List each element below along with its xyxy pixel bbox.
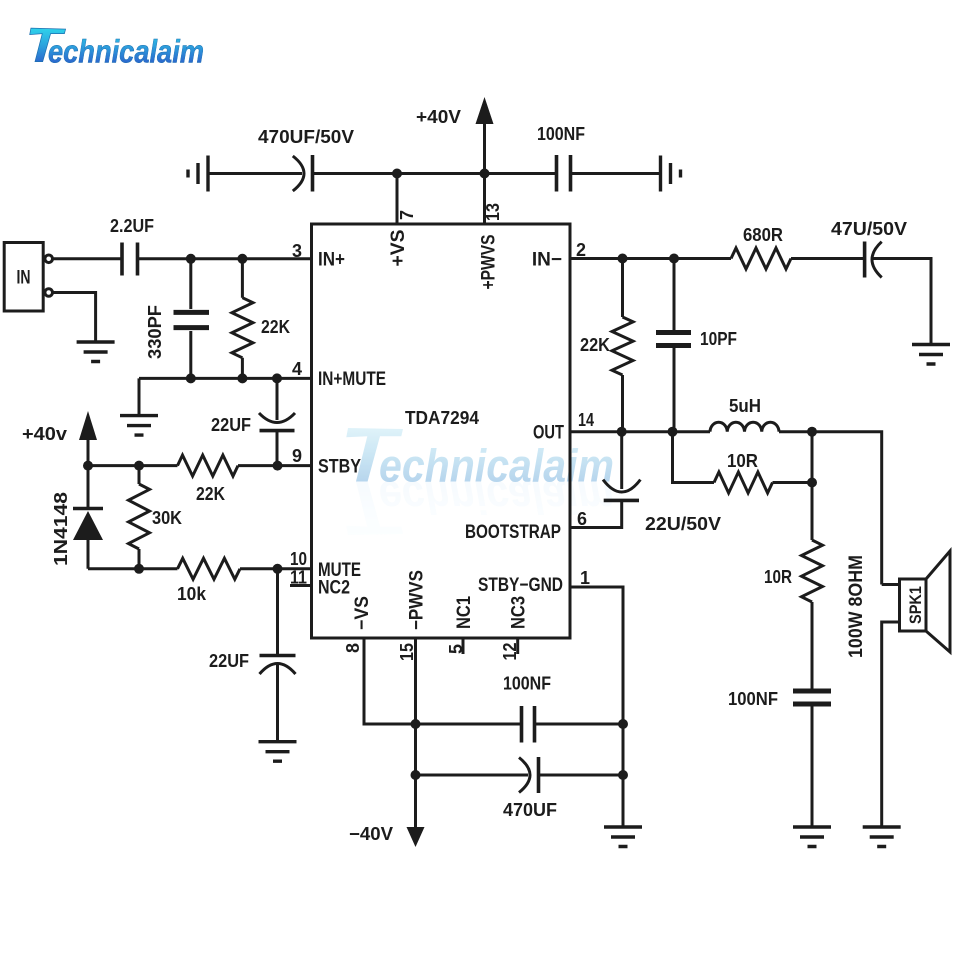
watermark Technicalaim (center) bbox=[346, 428, 614, 535]
svg-text:NC3: NC3 bbox=[509, 596, 530, 629]
logo Technicalaim (top-left) bbox=[30, 28, 204, 69]
svg-text:47U/50V: 47U/50V bbox=[831, 219, 907, 239]
svg-text:22UF: 22UF bbox=[209, 651, 249, 671]
node bbox=[618, 254, 628, 264]
wire pin 8 -VS down bbox=[364, 638, 520, 724]
ground (22UF mute) bbox=[259, 742, 297, 762]
pin 5 NC1 bbox=[446, 596, 475, 654]
svg-text:IN+MUTE: IN+MUTE bbox=[318, 369, 386, 390]
wire 470UF line bbox=[416, 774, 529, 777]
node bbox=[273, 461, 283, 471]
svg-text:10k: 10k bbox=[177, 584, 207, 604]
svg-text:echnicalaim: echnicalaim bbox=[379, 440, 614, 492]
svg-text:10PF: 10PF bbox=[700, 329, 737, 349]
node bbox=[273, 564, 283, 574]
svg-text:10R: 10R bbox=[727, 451, 758, 471]
svg-text:IN+: IN+ bbox=[318, 250, 345, 271]
svg-text:echnicalaim: echnicalaim bbox=[48, 34, 204, 70]
svg-text:TDA7294: TDA7294 bbox=[405, 408, 479, 428]
ground (47U) bbox=[912, 345, 950, 365]
capacitor C 2.2UF bbox=[110, 216, 154, 276]
wire MUTE line bbox=[88, 567, 312, 570]
wire top rail right segment bbox=[571, 172, 661, 175]
svg-text:NC1: NC1 bbox=[454, 596, 475, 629]
capacitor 10PF bbox=[656, 259, 737, 432]
svg-text:30K: 30K bbox=[152, 508, 182, 528]
svg-text:680R: 680R bbox=[743, 225, 783, 245]
ground (pin1) bbox=[604, 827, 642, 847]
svg-text:BOOTSTRAP: BOOTSTRAP bbox=[465, 522, 561, 543]
svg-text:100NF: 100NF bbox=[537, 124, 585, 144]
svg-text:+PWVS: +PWVS bbox=[479, 235, 500, 290]
svg-text:−PWVS: −PWVS bbox=[407, 570, 428, 630]
svg-text:100NF: 100NF bbox=[728, 689, 778, 709]
node bbox=[807, 427, 817, 437]
node bbox=[186, 373, 196, 383]
svg-text:IN: IN bbox=[17, 268, 31, 289]
pin 4 IN+MUTE bbox=[292, 359, 386, 390]
node junction at +PWVS feed bbox=[480, 169, 490, 179]
ground (pin4 line) bbox=[120, 416, 158, 436]
svg-text:+40V: +40V bbox=[416, 107, 461, 127]
svg-text:10R: 10R bbox=[764, 567, 792, 587]
wire pin 4 line bbox=[139, 378, 312, 415]
ground (top-left, sideways) bbox=[188, 156, 208, 192]
resistor 30K bbox=[129, 466, 183, 569]
svg-text:10: 10 bbox=[290, 549, 307, 569]
wire top rail mid segment bbox=[313, 172, 557, 175]
svg-text:470UF/50V: 470UF/50V bbox=[258, 127, 354, 147]
node bbox=[411, 770, 421, 780]
+40v arrow (left) bbox=[22, 411, 97, 466]
svg-text:330PF: 330PF bbox=[145, 305, 165, 359]
svg-text:−VS: −VS bbox=[352, 596, 373, 630]
pin 12 NC3 bbox=[500, 596, 530, 661]
wire OUT line bbox=[570, 432, 882, 585]
svg-text:470UF: 470UF bbox=[503, 800, 557, 820]
ground (input) bbox=[77, 342, 115, 362]
node bbox=[618, 770, 628, 780]
svg-text:IN−: IN− bbox=[532, 250, 562, 271]
wire pin 15 -PWVS down to -40V bbox=[414, 638, 417, 827]
svg-text:13: 13 bbox=[483, 203, 503, 221]
svg-text:7: 7 bbox=[397, 210, 417, 220]
svg-text:100NF: 100NF bbox=[503, 674, 551, 694]
svg-text:100W 8OHM: 100W 8OHM bbox=[846, 555, 867, 658]
resistor 10k bbox=[177, 558, 240, 604]
svg-text:22K: 22K bbox=[580, 335, 610, 355]
ground (speaker) bbox=[863, 827, 901, 847]
svg-text:STBY: STBY bbox=[318, 457, 361, 478]
wire top rail left segment bbox=[208, 172, 302, 175]
resistor 22K (STBY) bbox=[178, 455, 239, 504]
resistor 10R (to 100NF) bbox=[764, 483, 823, 689]
pin 2 IN- bbox=[532, 240, 586, 271]
svg-text:2.2UF: 2.2UF bbox=[110, 216, 154, 236]
node bbox=[134, 461, 144, 471]
speaker SPK1 bbox=[846, 551, 950, 827]
node bbox=[617, 427, 627, 437]
node bbox=[83, 461, 93, 471]
inductor 5uH bbox=[710, 396, 779, 432]
svg-text:+40v: +40v bbox=[22, 424, 67, 444]
resistor 22K (feedback) bbox=[580, 259, 633, 432]
capacitor 22UF (mute, lower) bbox=[209, 569, 296, 742]
ground (top-right, sideways) bbox=[661, 156, 681, 192]
op-amp IC U1 TDA7294 body bbox=[312, 224, 571, 638]
capacitor 100NF (neg rail) bbox=[503, 674, 623, 743]
diode 1N4148 bbox=[51, 466, 103, 569]
svg-text:STBY−GND: STBY−GND bbox=[478, 575, 563, 596]
svg-text:NC2: NC2 bbox=[318, 578, 350, 599]
svg-text:22UF: 22UF bbox=[211, 415, 251, 435]
pin 14 OUT bbox=[533, 410, 594, 444]
node bbox=[237, 373, 247, 383]
svg-text:−40V: −40V bbox=[349, 824, 393, 844]
capacitor 100NF (zobel) bbox=[728, 689, 831, 827]
wire pin1 STBY-GND down bbox=[570, 587, 623, 827]
svg-text:SPK1: SPK1 bbox=[906, 586, 925, 624]
node bbox=[186, 254, 196, 264]
pin 1 STBY-GND bbox=[478, 568, 590, 596]
pin 7 label +VS bbox=[292, 241, 345, 271]
svg-text:1N4148: 1N4148 bbox=[51, 492, 71, 566]
wire C2.2UF to pin 3 bbox=[138, 257, 312, 260]
capacitor 470UF (neg rail) bbox=[503, 757, 623, 820]
node bbox=[272, 373, 282, 383]
resistor 22K (input bias) bbox=[232, 259, 290, 379]
node bbox=[618, 719, 628, 729]
svg-text:+VS: +VS bbox=[388, 230, 409, 267]
pin 9 STBY bbox=[292, 446, 361, 478]
wire STBY line bbox=[88, 464, 312, 467]
svg-text:22K: 22K bbox=[261, 317, 290, 337]
pin 8 -VS bbox=[343, 596, 373, 653]
pin 15 -PWVS bbox=[397, 570, 428, 661]
capacitor 470UF/50V (top rail) bbox=[258, 127, 354, 192]
svg-text:9: 9 bbox=[292, 446, 302, 466]
capacitor 22U/50V (bootstrap) bbox=[570, 432, 721, 534]
ground (zobel) bbox=[793, 827, 831, 847]
wire pin 12 stub bbox=[516, 638, 519, 654]
capacitor 22UF (mute/stby filter upper) bbox=[211, 378, 295, 465]
svg-text:22U/50V: 22U/50V bbox=[645, 514, 721, 534]
pin 10 MUTE, pin 11 NC2 bbox=[290, 549, 361, 581]
node bbox=[807, 478, 817, 488]
svg-text:OUT: OUT bbox=[533, 423, 564, 444]
node junction at +VS feed bbox=[392, 169, 402, 179]
capacitor 100NF (top rail) bbox=[537, 124, 585, 192]
node bbox=[134, 564, 144, 574]
svg-text:5uH: 5uH bbox=[729, 396, 761, 416]
connector IN bbox=[4, 243, 52, 312]
wire +40V down to pin 13 bbox=[483, 124, 486, 224]
wire pin 2 line bbox=[570, 257, 865, 260]
node bbox=[669, 254, 679, 264]
capacitor 330PF bbox=[145, 259, 209, 379]
svg-text:1: 1 bbox=[580, 568, 590, 588]
node bbox=[668, 427, 678, 437]
wire IN hot to C 2.2UF bbox=[53, 257, 123, 260]
wire pin 5 stub bbox=[462, 638, 465, 654]
+40V supply arrow bbox=[416, 97, 494, 127]
-40V supply arrow bbox=[349, 824, 425, 847]
wire pin 7 to rail bbox=[396, 174, 399, 225]
svg-text:14: 14 bbox=[578, 410, 594, 430]
resistor 10R (zobel parallel) bbox=[673, 432, 813, 493]
wire IN gnd stub bbox=[53, 293, 96, 343]
node bbox=[411, 719, 421, 729]
capacitor 47U/50V bbox=[831, 219, 907, 278]
pin 6 BOOTSTRAP bbox=[465, 509, 587, 543]
node bbox=[237, 254, 247, 264]
svg-text:4: 4 bbox=[292, 359, 302, 379]
svg-text:8: 8 bbox=[343, 643, 363, 653]
svg-text:22K: 22K bbox=[196, 484, 225, 504]
resistor 680R bbox=[731, 225, 791, 269]
wire 47U to ground bbox=[873, 259, 932, 345]
